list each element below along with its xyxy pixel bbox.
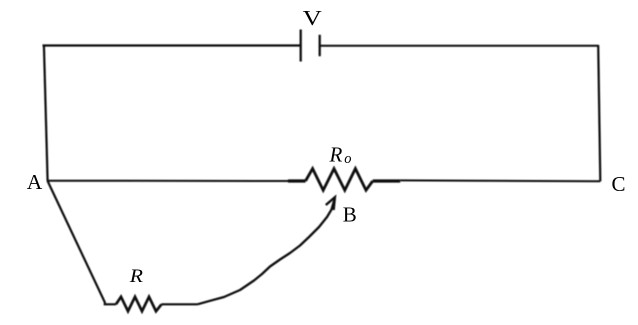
svg-text:V: V [303,6,322,30]
svg-text:R: R [129,266,144,287]
battery V right plate [319,35,321,56]
wire top-right segment [320,45,599,47]
wire A to Ro [47,180,289,182]
svg-text:C: C [612,172,626,196]
wire R to wiper curve start [162,303,198,305]
wire top-left segment [43,44,301,46]
wiper arrow shaft curve to B [198,199,335,304]
resistor Ro zigzag [306,169,373,191]
resistor Ro left lead [288,179,306,182]
wiper arrowhead [326,197,335,210]
wire A diagonal down to R [48,181,116,304]
svg-text:A: A [27,170,43,194]
wire Ro to C [400,179,600,182]
wire left vertical [44,45,48,181]
svg-text:B: B [343,203,357,227]
svg-text:o: o [344,151,352,167]
resistor Ro right lead [373,179,401,182]
svg-text:R: R [329,143,343,167]
resistor R zigzag [116,297,162,311]
wire right vertical [598,45,600,181]
battery V left plate [300,30,302,62]
